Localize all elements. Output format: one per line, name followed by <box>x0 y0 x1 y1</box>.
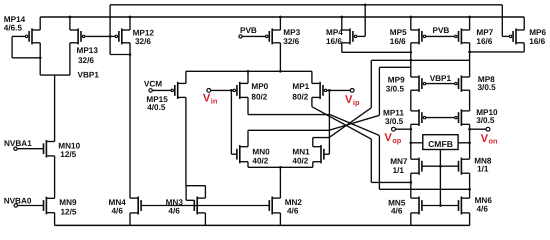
svg-text:3/0.5: 3/0.5 <box>476 116 495 125</box>
transistor MP7 <box>455 28 470 44</box>
node Vop terminal <box>392 127 396 131</box>
transistor MN1 <box>313 145 324 163</box>
wire cross MN0 drain <box>329 115 379 130</box>
wire MN1 source <box>312 162 314 168</box>
wire MN0 source <box>247 162 249 168</box>
wire MN0 drain <box>247 130 249 146</box>
wire Vin to MP0 gate <box>211 89 233 91</box>
wire MN3 diode vertical <box>185 186 187 201</box>
wire <box>12 57 40 59</box>
wire MN7 source to MN5 drain <box>410 173 412 198</box>
svg-text:PVB: PVB <box>433 26 450 35</box>
svg-text:80/2: 80/2 <box>251 92 267 101</box>
svg-text:4/6: 4/6 <box>168 207 180 216</box>
wire to MP9 source node <box>379 66 410 68</box>
svg-text:4/6: 4/6 <box>391 207 403 216</box>
junction <box>129 53 132 56</box>
wire MN1 drain <box>312 138 314 147</box>
wire MP12 gate <box>110 35 115 37</box>
wire CMFB right input <box>458 142 470 144</box>
junction <box>468 141 471 144</box>
svg-text:4/6.5: 4/6.5 <box>4 24 23 33</box>
svg-text:32/6: 32/6 <box>283 37 299 46</box>
junction <box>230 89 233 92</box>
junction <box>409 59 412 62</box>
wire MP15 to MN3 drain <box>186 185 206 187</box>
transistor MP12 <box>115 28 130 44</box>
wire cross MN1 drain <box>329 108 371 138</box>
wire MP4 drain to cascode node <box>342 51 411 53</box>
junction <box>439 165 442 168</box>
transistor MP4 <box>342 28 357 44</box>
wire MN9 source <box>54 213 56 226</box>
wire MN8 source to MN6 drain <box>469 173 471 198</box>
transistor MN8 <box>459 158 470 175</box>
svg-text:1/1: 1/1 <box>477 165 489 174</box>
wire MP0 drain east <box>248 114 330 116</box>
svg-text:4/6: 4/6 <box>112 207 124 216</box>
wire tail to MN2 drain <box>279 167 281 198</box>
wire MP4 drain <box>341 43 343 53</box>
wire ground rail <box>55 224 470 226</box>
wire VBP1 top rail <box>110 4 502 6</box>
wire MN7-MN8 gates <box>422 165 459 167</box>
wire MP6 source <box>523 17 525 30</box>
wire MP8 drain to MP10 <box>469 90 471 111</box>
wire MP13 source <box>69 17 71 30</box>
transistor MN7 <box>411 158 422 175</box>
wire to MN7 source node <box>371 181 411 183</box>
junction <box>129 16 132 19</box>
transistor MN4 <box>130 197 141 215</box>
transistor MP10 <box>455 109 470 126</box>
wire cross MP0 drain <box>330 115 379 136</box>
node Vin terminal <box>207 89 211 93</box>
wire PVB MP5-MP7 gates <box>426 35 455 37</box>
wire <box>11 36 13 57</box>
junction <box>328 89 331 92</box>
transistor MN5 <box>411 197 422 215</box>
wire MP12 source <box>129 17 131 30</box>
svg-text:16/6: 16/6 <box>326 37 342 46</box>
junction <box>279 16 282 19</box>
wire Von <box>470 128 487 130</box>
wire MN0 gate <box>231 153 237 155</box>
transistor MP3 <box>266 28 281 44</box>
svg-text:CMFB: CMFB <box>428 139 453 149</box>
svg-text:4/0.5: 4/0.5 <box>147 103 166 112</box>
junction <box>39 56 42 59</box>
junction <box>468 188 471 191</box>
wire MP7 source <box>469 17 471 30</box>
transistor MP1 <box>312 82 327 99</box>
wire VCM to MP15 gate <box>152 89 171 91</box>
wire pair tail rail <box>248 166 313 168</box>
node PVB left terminal <box>239 35 242 38</box>
svg-text:MP3: MP3 <box>283 28 300 37</box>
junction <box>69 16 72 19</box>
wire VDD rail <box>40 16 524 18</box>
transistor MN0 <box>237 145 248 163</box>
junction <box>109 35 112 38</box>
svg-text:3/0.5: 3/0.5 <box>386 85 405 94</box>
wire MP11-MP10 gates <box>426 117 455 119</box>
wire MP14-MP13 drain bar <box>40 74 70 76</box>
transistor MP8 <box>455 75 470 91</box>
wire CMFB output down <box>439 150 441 206</box>
junction <box>439 204 442 207</box>
wire Vip down to MN1 gate <box>328 90 330 154</box>
wire MP6 drain <box>523 43 525 52</box>
svg-text:ip: ip <box>353 98 360 107</box>
transistor MN10 <box>44 140 55 158</box>
wire MP1 drain <box>311 97 313 106</box>
junction <box>279 166 282 169</box>
wire MN3 source <box>204 213 206 226</box>
svg-text:NVBA1: NVBA1 <box>4 139 32 148</box>
svg-text:16/6: 16/6 <box>476 37 492 46</box>
junction <box>409 16 412 19</box>
svg-text:op: op <box>392 136 402 145</box>
wire MP6 drain to MP7 drain <box>470 51 525 53</box>
svg-text:MP7: MP7 <box>476 28 493 37</box>
wire MN4 source <box>129 213 131 226</box>
wire MP14 drain <box>39 43 41 75</box>
transistor MN6 <box>459 197 470 215</box>
svg-text:VCM: VCM <box>144 80 162 89</box>
svg-text:1/1: 1/1 <box>393 166 405 175</box>
svg-text:in: in <box>211 97 218 106</box>
wire CMFB left input <box>411 142 423 144</box>
wire MN0 drain east <box>248 129 329 131</box>
wire to MN8 source node <box>379 188 469 190</box>
wire MP14 source <box>39 17 41 30</box>
wire MP4 source <box>341 17 343 30</box>
wire MP14 gate loop <box>12 35 25 37</box>
wire MP7 drain to MP8 <box>469 43 471 77</box>
junction <box>409 141 412 144</box>
transistor MP11 <box>411 109 426 126</box>
wire <box>378 136 380 190</box>
junction <box>409 51 412 54</box>
wire VBP1 MP9-MP8 gates <box>426 83 455 85</box>
svg-text:MP5: MP5 <box>390 28 407 37</box>
svg-text:MP6: MP6 <box>529 28 546 37</box>
wire MP0 source <box>247 71 249 83</box>
svg-text:80/2: 80/2 <box>292 92 308 101</box>
junction <box>468 128 471 131</box>
wire to cascode top nodes <box>371 59 469 61</box>
wire <box>370 60 372 108</box>
junction <box>468 51 471 54</box>
svg-text:32/6: 32/6 <box>78 56 94 65</box>
node NVBA1 terminal <box>14 147 17 150</box>
wire MN1 drain hook <box>313 137 329 139</box>
wire MP5 drain to MP9 <box>410 43 412 77</box>
wire MN5 source <box>410 213 412 226</box>
wire VBP1 vertical <box>109 5 111 55</box>
transistor MP5 <box>411 28 426 44</box>
node Von terminal <box>486 127 490 131</box>
wire MP4 gate to VBP1 rail <box>364 5 366 37</box>
wire MP4 gate <box>357 35 365 37</box>
wire MP11 drain to MN7 <box>410 124 412 159</box>
wire MN6 source <box>469 213 471 226</box>
wire MN10 source to MN9 drain <box>54 156 56 198</box>
svg-text:MP0: MP0 <box>251 82 268 91</box>
transistor MN3 <box>194 197 205 215</box>
svg-text:4/6: 4/6 <box>477 204 489 213</box>
wire MN4-MN3-MN2 gates <box>141 205 269 207</box>
svg-text:16/6: 16/6 <box>390 37 406 46</box>
wire Vin down to MN0 gate <box>230 90 232 154</box>
block CMFB <box>423 135 458 150</box>
wire MP3 drain <box>279 43 281 72</box>
wire MP6 gate vertical <box>501 5 503 37</box>
wire down to MN10 drain <box>54 75 56 141</box>
transistor MP15 <box>171 82 186 99</box>
svg-text:MN9: MN9 <box>59 198 77 207</box>
svg-text:MP1: MP1 <box>292 82 309 91</box>
transistor MP14 <box>25 28 40 44</box>
wire NVBA0 to MN9 gate <box>18 205 44 207</box>
svg-text:MP4: MP4 <box>326 28 343 37</box>
wire VBP1 to MP12 drain <box>110 54 130 56</box>
wire MN3 diode to gate <box>186 199 194 201</box>
transistor MN2 <box>269 197 280 215</box>
svg-text:4/6: 4/6 <box>287 207 299 216</box>
svg-text:MN1: MN1 <box>292 147 310 156</box>
wire MP9 drain to MP11 <box>410 90 412 111</box>
wire MN1 gate <box>323 153 329 155</box>
svg-text:MN0: MN0 <box>252 147 270 156</box>
svg-text:NVBA0: NVBA0 <box>4 196 32 205</box>
node Vip terminal <box>350 89 354 93</box>
wire MP15 bottom to MN3 drain <box>185 97 187 185</box>
junction <box>364 3 367 6</box>
transistor MP6 <box>509 28 524 44</box>
wire PVB to MP3 gate <box>242 35 265 37</box>
transistor MP9 <box>411 75 426 91</box>
wire NVBA1 to MN10 gate <box>17 148 43 150</box>
wire Vop <box>395 128 410 130</box>
transistor MP13 <box>70 28 85 44</box>
junction <box>247 70 250 73</box>
svg-text:V: V <box>481 133 489 145</box>
wire MP0 drain <box>247 97 249 114</box>
svg-text:V: V <box>345 94 353 106</box>
junction <box>468 16 471 19</box>
svg-text:V: V <box>384 132 392 144</box>
transistor MP0 <box>233 82 248 99</box>
svg-text:16/6: 16/6 <box>529 37 545 46</box>
wire cross MP1 drain <box>312 107 371 139</box>
svg-text:VBP1: VBP1 <box>78 70 100 79</box>
wire <box>378 67 380 115</box>
svg-text:12/5: 12/5 <box>60 150 76 159</box>
wire MN3 drain <box>204 186 206 198</box>
svg-text:V: V <box>203 93 211 105</box>
wire <box>370 139 372 182</box>
svg-text:3/0.5: 3/0.5 <box>385 117 404 126</box>
junction <box>409 128 412 131</box>
wire MP15 top <box>185 71 187 83</box>
svg-text:3/0.5: 3/0.5 <box>478 83 497 92</box>
svg-text:MP9: MP9 <box>388 75 405 84</box>
node NVBA0 terminal <box>14 204 17 207</box>
wire pair source rail <box>186 70 312 72</box>
wire MP3 source <box>279 17 281 30</box>
svg-text:MN10: MN10 <box>58 141 80 150</box>
junction <box>279 70 282 73</box>
svg-text:40/2: 40/2 <box>252 156 268 165</box>
junction <box>409 181 412 184</box>
svg-text:MP13: MP13 <box>77 46 99 55</box>
wire MP5 source <box>410 17 412 30</box>
wire MN5-MN6 gates <box>422 205 459 207</box>
node VCM terminal <box>149 89 152 92</box>
wire MP1 source <box>311 71 313 83</box>
junction <box>340 16 343 19</box>
wire MP10 drain to MN8 <box>469 124 471 159</box>
wire MP13 drain <box>69 43 71 75</box>
wire MP13 gate to VBP1 <box>85 35 110 37</box>
svg-text:12/5: 12/5 <box>61 207 77 216</box>
svg-text:on: on <box>489 137 499 146</box>
svg-text:PVB: PVB <box>240 26 257 35</box>
transistor MN9 <box>44 197 55 215</box>
svg-text:40/2: 40/2 <box>292 156 308 165</box>
wire MP12 drain down to MN4 <box>129 43 131 198</box>
svg-text:MN7: MN7 <box>390 157 408 166</box>
wire MN2 source <box>279 213 281 226</box>
svg-text:VBP1: VBP1 <box>430 74 452 83</box>
wire MP1 gate to Vip <box>327 89 351 91</box>
wire MP6 gate <box>502 35 509 37</box>
svg-text:32/6: 32/6 <box>135 37 151 46</box>
